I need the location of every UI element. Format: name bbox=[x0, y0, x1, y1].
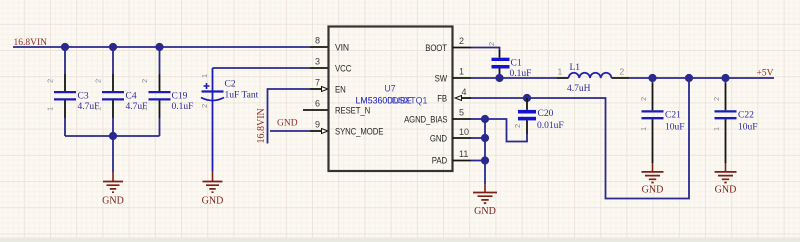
svg-text:4.7uH: 4.7uH bbox=[567, 84, 591, 94]
svg-text:9: 9 bbox=[315, 120, 320, 130]
svg-text:PAD: PAD bbox=[432, 156, 447, 167]
junction bus bbox=[109, 132, 117, 140]
svg-text:C21: C21 bbox=[665, 111, 681, 121]
junction C4 top bbox=[109, 43, 117, 51]
C21 labels bbox=[665, 111, 685, 133]
svg-text:8: 8 bbox=[315, 36, 320, 46]
svg-text:2: 2 bbox=[459, 36, 464, 46]
svg-text:2: 2 bbox=[712, 97, 721, 101]
wire pin11 to gnd rail bbox=[471, 160, 485, 162]
svg-text:FB: FB bbox=[437, 94, 447, 105]
pin number 6 bbox=[315, 99, 320, 109]
svg-text:GND: GND bbox=[277, 119, 298, 129]
C2 labels bbox=[225, 80, 259, 101]
svg-text:GND: GND bbox=[430, 134, 447, 145]
wire pin10 to gnd rail bbox=[471, 137, 485, 139]
svg-text:6: 6 bbox=[315, 99, 320, 109]
pin 1 stub bbox=[453, 77, 472, 79]
svg-text:2: 2 bbox=[140, 79, 149, 83]
U7 part number overlap bbox=[356, 96, 428, 106]
pin number 4 bbox=[462, 87, 467, 97]
svg-text:C4: C4 bbox=[126, 92, 137, 102]
junction C22/rail bbox=[721, 74, 729, 82]
svg-text:RESET_N: RESET_N bbox=[335, 106, 370, 117]
pin 6 stub (RESET_N n/c) bbox=[303, 109, 329, 111]
pin 11 stub bbox=[453, 160, 472, 162]
svg-text:2: 2 bbox=[94, 79, 103, 83]
svg-text:C20: C20 bbox=[538, 109, 554, 119]
capacitor C1 bbox=[487, 42, 510, 78]
ground GND5 bbox=[715, 163, 737, 196]
junction FB/rail bbox=[685, 74, 693, 82]
pin number 2 bbox=[459, 36, 464, 46]
svg-text:U7: U7 bbox=[384, 84, 395, 94]
svg-text:1: 1 bbox=[459, 67, 464, 77]
ground GND1 bbox=[102, 172, 124, 207]
wire FB sense bbox=[471, 78, 689, 199]
junction FB/C20 bbox=[523, 94, 531, 102]
svg-text:C3: C3 bbox=[78, 92, 89, 102]
svg-text:7: 7 bbox=[315, 78, 320, 88]
pin name RESET_N bbox=[335, 106, 370, 117]
svg-text:2: 2 bbox=[513, 124, 522, 128]
svg-text:+5V: +5V bbox=[757, 69, 774, 79]
svg-text:1: 1 bbox=[712, 127, 721, 131]
C20 labels bbox=[537, 109, 564, 131]
pin 5 stub bbox=[453, 118, 472, 120]
svg-text:2: 2 bbox=[639, 97, 648, 101]
pin name VCC bbox=[335, 64, 351, 75]
pin number 8 bbox=[315, 36, 320, 46]
svg-text:C1: C1 bbox=[511, 59, 522, 69]
net label 16.8VIN (vertical) bbox=[256, 108, 267, 143]
svg-text:VIN: VIN bbox=[335, 43, 349, 54]
junction pin11 bbox=[481, 156, 489, 164]
capacitor C4 bbox=[94, 47, 125, 136]
pin 10 stub bbox=[453, 137, 472, 139]
svg-text:GND: GND bbox=[202, 196, 224, 207]
svg-text:1: 1 bbox=[200, 74, 209, 78]
pin name VIN bbox=[335, 43, 349, 54]
svg-text:1: 1 bbox=[140, 107, 149, 111]
svg-text:VCC: VCC bbox=[335, 64, 351, 75]
sheet bottom edge bbox=[0, 238, 800, 242]
wire BOOT bbox=[471, 48, 500, 51]
svg-text:LM5360DUBE: LM5360DUBE bbox=[356, 96, 412, 106]
C4 labels bbox=[126, 92, 148, 113]
svg-text:C2: C2 bbox=[225, 80, 236, 90]
wire VCC bbox=[213, 67, 311, 69]
C19 labels bbox=[172, 92, 194, 113]
C22 labels bbox=[738, 111, 758, 133]
pin 2 stub bbox=[453, 47, 472, 49]
svg-text:SYNC_MODE: SYNC_MODE bbox=[335, 127, 383, 138]
pin number 3 bbox=[315, 57, 320, 67]
capacitor C2 (tantalum) bbox=[200, 68, 224, 171]
C3 labels bbox=[78, 92, 100, 113]
net label 16.8VIN bbox=[14, 38, 48, 48]
capacitor C19 bbox=[140, 47, 171, 136]
pin name EN bbox=[335, 85, 346, 96]
svg-text:GND: GND bbox=[102, 196, 124, 207]
svg-text:1: 1 bbox=[46, 107, 55, 111]
ground GND3 bbox=[473, 184, 497, 217]
wire input cap bus bbox=[65, 135, 160, 137]
svg-text:5: 5 bbox=[459, 108, 464, 118]
junction C19 top bbox=[155, 43, 163, 51]
pin name BOOT bbox=[425, 43, 447, 54]
svg-text:C22: C22 bbox=[738, 111, 754, 121]
pin name AGND_BIAS bbox=[404, 115, 447, 126]
pin number 11 bbox=[459, 149, 468, 159]
pin number 10 bbox=[459, 127, 469, 137]
capacitor C22 bbox=[712, 78, 737, 163]
svg-text:0.1uF: 0.1uF bbox=[172, 102, 194, 112]
svg-text:GND: GND bbox=[474, 206, 496, 217]
ground GND4 bbox=[642, 163, 664, 196]
pin 8 stub bbox=[310, 46, 329, 48]
svg-text:GND: GND bbox=[642, 185, 664, 196]
pin number 9 bbox=[315, 120, 320, 130]
svg-text:AGND_BIAS: AGND_BIAS bbox=[404, 115, 447, 126]
junction pin10 bbox=[481, 134, 489, 142]
wire L1 to +5V bbox=[629, 77, 774, 79]
pin name FB bbox=[437, 94, 447, 105]
wire bus to ground bbox=[112, 136, 114, 172]
pin 9 stub bbox=[310, 129, 328, 134]
junction C1/SW bbox=[495, 74, 503, 82]
wire SYNC_MODE to GND bbox=[270, 130, 310, 132]
pin 4 stub bbox=[455, 96, 471, 101]
svg-text:11: 11 bbox=[459, 149, 468, 159]
U7 designator bbox=[384, 84, 395, 94]
C1 labels bbox=[510, 59, 532, 80]
L1 labels bbox=[567, 63, 591, 94]
pin name GND bbox=[430, 134, 447, 145]
wire gnd rail vertical bbox=[484, 119, 486, 184]
ground GND2 bbox=[202, 171, 224, 207]
svg-text:10uF: 10uF bbox=[738, 123, 758, 133]
svg-text:2: 2 bbox=[620, 67, 625, 77]
svg-text:1: 1 bbox=[94, 107, 103, 111]
svg-text:3: 3 bbox=[315, 57, 320, 67]
pin name SW bbox=[435, 74, 448, 85]
svg-text:4: 4 bbox=[462, 87, 467, 97]
svg-text:10: 10 bbox=[459, 127, 469, 137]
wire EN to 16.8VIN bbox=[268, 89, 311, 144]
capacitor C20 bbox=[513, 98, 536, 134]
svg-text:SW: SW bbox=[435, 74, 448, 85]
svg-text:0.01uF: 0.01uF bbox=[537, 121, 564, 131]
pin name SYNC_MODE bbox=[335, 127, 383, 138]
wire 16.8VIN rail bbox=[13, 46, 310, 48]
capacitor C21 bbox=[639, 78, 664, 163]
svg-text:16.8VIN: 16.8VIN bbox=[256, 108, 267, 143]
inductor L1 bbox=[557, 67, 629, 79]
pin number 1 bbox=[459, 67, 464, 77]
op-amp U1 : IC U7 LM53600 body bbox=[329, 27, 453, 172]
svg-text:1: 1 bbox=[639, 127, 648, 131]
capacitor C3 bbox=[46, 47, 77, 136]
svg-text:10uF: 10uF bbox=[665, 123, 685, 133]
junction C3 top bbox=[61, 43, 69, 51]
svg-text:GND: GND bbox=[715, 185, 737, 196]
svg-text:BOOT: BOOT bbox=[425, 43, 447, 54]
svg-text:1uF Tant: 1uF Tant bbox=[225, 91, 259, 101]
wire C20 to AGND_BIAS bbox=[485, 119, 527, 142]
junction C21/rail bbox=[648, 74, 656, 82]
pin number 5 bbox=[459, 108, 464, 118]
wire pin5 to gnd rail bbox=[471, 118, 485, 120]
pin name PAD bbox=[432, 156, 447, 167]
net label GND (pin 9) bbox=[277, 119, 298, 129]
svg-text:2: 2 bbox=[46, 79, 55, 83]
junction pin5 bbox=[481, 115, 489, 123]
svg-text:EN: EN bbox=[335, 85, 346, 96]
svg-text:L1: L1 bbox=[570, 63, 581, 73]
svg-text:1: 1 bbox=[558, 67, 563, 77]
svg-text:2: 2 bbox=[487, 42, 496, 46]
net label +5V bbox=[757, 69, 774, 79]
svg-text:2: 2 bbox=[200, 104, 209, 108]
svg-text:C19: C19 bbox=[172, 92, 188, 102]
pin 3 stub bbox=[310, 67, 329, 69]
pin number 7 bbox=[315, 78, 320, 88]
wire SW to L1 bbox=[471, 77, 557, 79]
pin 7 stub bbox=[310, 87, 328, 92]
